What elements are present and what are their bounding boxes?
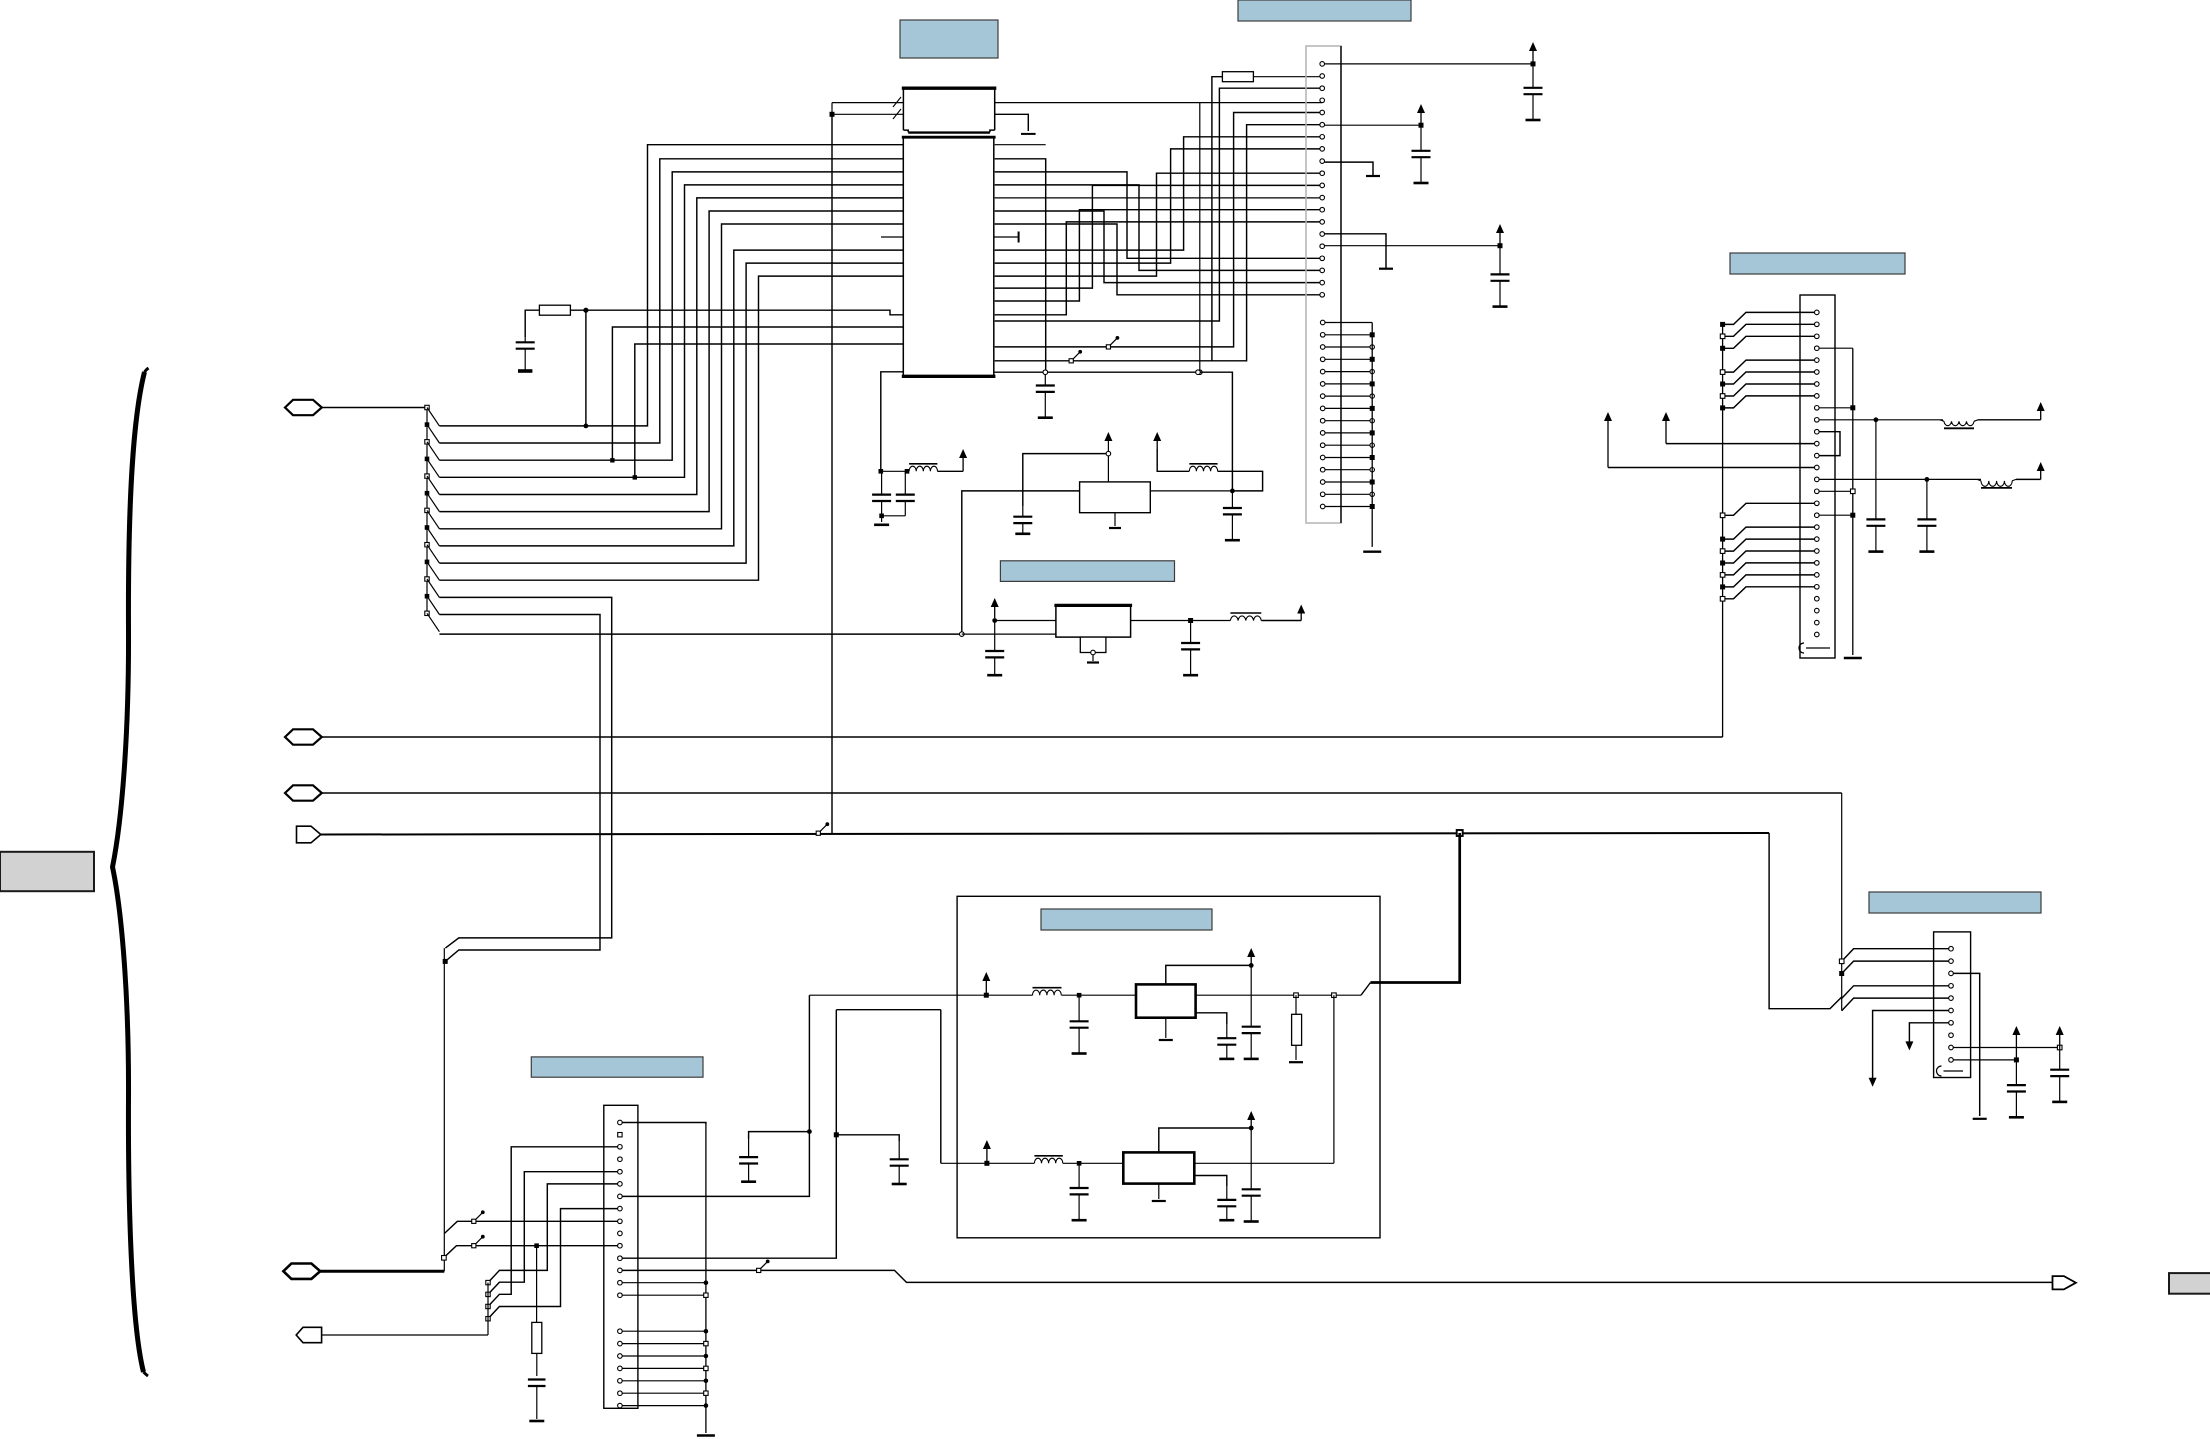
- inductor L5: [1977, 479, 1981, 481]
- connector J3 pin 19: [618, 1366, 623, 1371]
- capacitor C16: [1250, 965, 1252, 1026]
- connector J1 pin 2: [1320, 74, 1325, 79]
- label blue box B2: [1238, 0, 1411, 21]
- wire braid net 11: [995, 185, 1322, 271]
- junction R2 node: [583, 308, 588, 313]
- bus J4: [1841, 961, 1843, 1010]
- wire braid net 13: [995, 224, 1322, 295]
- capacitor C20: [748, 1139, 750, 1157]
- power arrow U5: [1250, 1115, 1252, 1128]
- connector J2 pin 12: [1815, 441, 1820, 446]
- connector J2 pin 8: [1815, 394, 1820, 399]
- wire braid net 6: [995, 173, 1322, 276]
- inductor L7: [1034, 1155, 1062, 1157]
- wire-to-pin9 with jumper: [445, 1221, 618, 1233]
- junction U5 top: [1249, 1126, 1254, 1131]
- connector J2 pin 13: [1815, 453, 1820, 458]
- connector J1 pin 17: [1320, 256, 1325, 261]
- IC U1 top section bottom edge with notches: [903, 130, 908, 132]
- wire fan row 5 to IC pin: [439, 198, 903, 495]
- jumper on output wire: [757, 1268, 761, 1272]
- wire W1 into IC top (with bus slash): [832, 102, 903, 104]
- connector J2 pin 3: [1815, 334, 1820, 339]
- connector J1 gnd pin 21: [1320, 320, 1325, 325]
- connector J3 pin 2: [618, 1133, 622, 1137]
- wire fan row 8 to IC pin: [439, 250, 903, 546]
- wire J2 pin19 ripper: [1723, 527, 1815, 539]
- wire J4 pin9 power: [1953, 1047, 2059, 1049]
- jumper J3b: [472, 1244, 476, 1248]
- wire fan row 9 to IC pin: [439, 263, 903, 563]
- connector J1 pin 4: [1320, 98, 1325, 103]
- wire U3 output: [1130, 620, 1190, 622]
- wire fan row 11 drop to lower area: [439, 597, 611, 948]
- wire fan row 1 to IC pin: [439, 145, 903, 426]
- wire C6-C7 bottom join: [882, 515, 906, 517]
- connector J1 body: [1306, 46, 1341, 523]
- wire J4 pin2 ripper: [1842, 961, 1949, 973]
- junction rail1 right: [1332, 993, 1337, 998]
- wire L5 to arrow: [2016, 478, 2041, 480]
- wire U5 pin2 to C18: [1194, 1176, 1227, 1187]
- wire L1 to arrow: [937, 470, 963, 472]
- wire J3 pin17 to bus: [622, 1343, 706, 1345]
- connector J1 gnd pin 27: [1320, 394, 1325, 399]
- wire IC top pin to connector pin4 (net W1): [995, 102, 1322, 104]
- arrow down J4a: [1872, 1078, 1874, 1083]
- wire U4 out: [1196, 994, 1361, 996]
- label blue box B7: [1869, 892, 2041, 913]
- wire braid net 5: [995, 149, 1322, 263]
- capacitor C24: [2015, 1060, 2017, 1085]
- connector J1 pin 20: [1320, 293, 1325, 298]
- capacitor C19: [1250, 1128, 1252, 1189]
- connector J4 key: [1937, 1066, 1942, 1076]
- wire J3 pin20 to bus: [622, 1380, 706, 1382]
- fan ripper 2: [425, 422, 430, 427]
- label blue box B3: [1730, 253, 1905, 274]
- wire J2 pin4 to ground bus: [1819, 347, 1853, 349]
- wire inter-rail vertical: [1333, 995, 1335, 1163]
- connector J3 pin 21: [618, 1391, 623, 1396]
- connector J3 pin 22: [618, 1403, 623, 1408]
- wire braid net 12: [995, 211, 1322, 283]
- wire J3 pin3 loop to P6 bundle: [488, 1147, 618, 1307]
- connector J2 pin 26: [1815, 608, 1820, 613]
- resistor R4 vertical: [536, 1246, 538, 1323]
- connector J2 pin 20: [1815, 537, 1820, 542]
- connector J2 pin 2: [1815, 322, 1820, 327]
- connector J2 pin 27: [1815, 620, 1820, 625]
- junction at x1045: [1043, 370, 1048, 375]
- bus brace (left curly brace): [113, 372, 145, 1372]
- connector J1 pin 8: [1320, 147, 1325, 152]
- wire U2 right pin to node: [1150, 490, 1232, 492]
- fan ripper 4: [425, 457, 430, 462]
- port P6 (output to left): [296, 1327, 321, 1342]
- wire coil L2 box: [1218, 471, 1263, 491]
- bold wire P5: [320, 1270, 444, 1273]
- capacitor C9: [1231, 491, 1233, 508]
- jumper J3a: [472, 1219, 476, 1223]
- wire J2 pin24 ripper: [1723, 587, 1815, 599]
- title block grey box: [0, 852, 94, 891]
- power arrow L3 out: [1300, 609, 1302, 621]
- power arrow U3 input: [994, 602, 996, 618]
- wire-to-pin11 with jumper: [444, 1246, 618, 1258]
- fan ripper 10: [425, 560, 430, 565]
- wire J2 pin7 ripper: [1723, 384, 1815, 396]
- connector J4 pin 3: [1949, 971, 1954, 976]
- connector J3 pin 9: [618, 1219, 623, 1224]
- regulator U3 body (bold top): [1056, 605, 1131, 637]
- wire rail2 feed corner: [940, 1010, 942, 1164]
- wire fan row 2 to IC pin: [439, 159, 903, 443]
- connector J4 pin 9: [1949, 1045, 1954, 1050]
- connector J1 gnd pin 30: [1320, 431, 1325, 436]
- wire P6: [322, 1334, 488, 1336]
- connector J2 pin 14: [1815, 465, 1820, 470]
- wire U3 left pin2: [962, 633, 1056, 635]
- resistor R1 (series on cn2 net): [1222, 72, 1253, 82]
- inductor L3: [1230, 612, 1261, 614]
- connector J1 pin 6: [1320, 122, 1325, 127]
- junction fan rows: [443, 959, 448, 964]
- connector J4 body: [1934, 932, 1971, 1078]
- wire U5 bottom stub: [1158, 1184, 1160, 1199]
- inductor L6: [1033, 987, 1062, 989]
- capacitor C2 on subcircuit net: [1044, 375, 1046, 386]
- ground sub1: [881, 516, 883, 522]
- connector J1 gnd pin 33: [1320, 467, 1325, 472]
- wire J4 pin1 ripper: [1842, 949, 1949, 962]
- connector J3 pin 4: [618, 1157, 623, 1162]
- bus left of J2: [1722, 324, 1724, 737]
- power arrow U2: [1107, 436, 1109, 441]
- junction rail1 arrow: [984, 993, 989, 998]
- resistor R3 vertical: [1295, 995, 1297, 1014]
- ground bus right of J2: [1852, 348, 1854, 655]
- wire J3 pin14 to bus: [622, 1282, 706, 1284]
- wire R2 left to C1: [525, 310, 539, 337]
- connector J2 pin 17: [1815, 501, 1820, 506]
- port P4 (control signal): [297, 826, 321, 843]
- wire J2 pin3 ripper: [1723, 336, 1815, 348]
- wire J2 pin18 to ground bus: [1819, 514, 1853, 516]
- inductor L1: [909, 463, 937, 465]
- power arrow rail2: [986, 1144, 988, 1161]
- connector J1 gnd pin 32: [1320, 455, 1325, 460]
- fan ripper 6: [425, 491, 430, 496]
- power arrow VDD3: [1499, 228, 1501, 246]
- wire rail1 feed from below-left: [808, 995, 810, 1131]
- fan ripper 8: [425, 525, 430, 530]
- fan ripper 13: [425, 611, 429, 615]
- regulator U5 body (bold): [1123, 1152, 1194, 1183]
- output arrow right: [2053, 1276, 2076, 1289]
- connector J3 pin 20: [618, 1379, 623, 1384]
- fan ripper 5: [425, 474, 429, 478]
- wire L2 from arrow: [1157, 449, 1189, 471]
- wire J2 pin2 ripper: [1723, 324, 1815, 336]
- wire P4 descent and feed: [1769, 833, 1842, 1009]
- wire L3 to arrow: [1261, 620, 1301, 622]
- wire J3 pin15 to bus: [622, 1294, 706, 1296]
- connector J4 pin 5: [1949, 996, 1954, 1001]
- connector J2 pin 4: [1815, 346, 1820, 351]
- wire U2 top to power node: [1107, 456, 1109, 482]
- connector J1 gnd pin 28: [1320, 406, 1325, 411]
- connector J1 pin 13: [1320, 207, 1325, 212]
- connector J2 pin 24: [1815, 585, 1820, 590]
- wire braid net 4: [995, 137, 1322, 250]
- wire U5 top loop: [1159, 1128, 1251, 1152]
- wire fan row 12 drop to lower area: [439, 615, 600, 962]
- wire R1 to connector pin2: [1253, 76, 1322, 78]
- long output wire to right port: [622, 1270, 2052, 1282]
- wire cn15 termination: [1325, 234, 1387, 269]
- connector J1 pin 10: [1320, 171, 1325, 176]
- vertical x444 chain: [443, 948, 445, 1271]
- wire vertical channel x1200: [1199, 103, 1201, 373]
- capacitor C15: [1226, 1024, 1228, 1038]
- wire x1046 riser to IC pin 158.8: [995, 159, 1046, 370]
- power arrow J2a: [2040, 406, 2042, 420]
- wire J2 pin11-13 bracket: [1819, 432, 1840, 456]
- connector J3 pin 6: [618, 1182, 623, 1187]
- wire J2 pin17 ripper: [1723, 503, 1815, 515]
- connector J1 pin 15: [1320, 232, 1325, 237]
- junction U4 top: [1249, 963, 1254, 968]
- ground symbol J2: [1844, 657, 1862, 659]
- connector J2 pin 18: [1815, 513, 1820, 518]
- IC U1 top section: [903, 88, 994, 130]
- big box boundary: [957, 896, 1380, 1238]
- connector J2 pin 25: [1815, 596, 1820, 601]
- wire J2 pin20 ripper: [1723, 539, 1815, 551]
- junction R3: [1294, 993, 1299, 998]
- wire P6 riser: [487, 1283, 489, 1335]
- wire fan riser B to IC pin 344: [635, 344, 903, 477]
- ground bus J3: [705, 1123, 707, 1434]
- connector J1 pin 19: [1320, 280, 1325, 285]
- bold wire horizontal into box: [1371, 981, 1462, 984]
- wire J4 pin4 ripper: [1842, 986, 1949, 999]
- wire J4 pin6 down arrow: [1873, 1011, 1949, 1079]
- capacitor C23: [2059, 1048, 2061, 1070]
- connector J3 pin 8: [618, 1206, 623, 1211]
- regulator U2 body: [1080, 482, 1151, 513]
- jumper on net cn5: [1106, 345, 1110, 349]
- wire U4 bottom stub: [1165, 1018, 1167, 1038]
- fan ripper 9: [425, 543, 429, 547]
- wire J3 pin1 to bus: [622, 1123, 706, 1125]
- label blue box B6: [531, 1057, 703, 1077]
- junction C17: [1077, 1161, 1082, 1166]
- wire IC bottom pin row (sub-circuit net): [994, 372, 1233, 491]
- connector J1 pin 11: [1320, 183, 1325, 188]
- connector J1 gnd pin 29: [1320, 418, 1325, 423]
- junction C14: [1077, 993, 1082, 998]
- capacitor C21: [898, 1141, 900, 1159]
- wire J2 pin6 ripper: [1723, 372, 1815, 384]
- wire braid net 3: [995, 125, 1322, 361]
- wire cn16 power tap: [1325, 245, 1501, 247]
- capacitor C13: [1926, 479, 1928, 519]
- connector J3 pin 1: [618, 1120, 623, 1125]
- wire J2 pin12 to arrow: [1666, 443, 1815, 445]
- wire J2 pin14 to arrow: [1608, 467, 1815, 469]
- wire P3 descent: [1841, 793, 1843, 961]
- fan ripper 12: [425, 594, 430, 599]
- wire braid net 9: [995, 222, 1322, 315]
- capacitor C17: [1078, 1163, 1080, 1188]
- power arrow rail1: [985, 976, 987, 993]
- wire J4 pin7 down arrow: [1909, 1023, 1948, 1042]
- connector J3 body: [604, 1105, 638, 1408]
- power arrow VDD1: [1532, 46, 1534, 64]
- wire vertical feed x832 down to P4 net: [831, 114, 833, 833]
- connector J1 gnd pin 25: [1320, 369, 1325, 374]
- wire J4 pin5 ripper: [1842, 998, 1949, 1011]
- wire straight net cn12: [995, 197, 1322, 199]
- connector J1 gnd pin 34: [1320, 480, 1325, 485]
- connector J3 pin 10: [618, 1231, 623, 1236]
- fan ripper 3: [425, 440, 429, 444]
- connector J3 pin 14: [618, 1280, 623, 1285]
- connector J3 pin 5: [618, 1169, 623, 1174]
- wire cn9 termination: [1325, 162, 1374, 176]
- label blue box B1: [900, 20, 998, 58]
- wire IC pin 144 stub: [995, 144, 1046, 146]
- wire U4 pin2 to C15: [1196, 1013, 1227, 1024]
- inductor L2: [1189, 463, 1217, 465]
- capacitor C8: [1022, 506, 1024, 517]
- label blue box B4: [1000, 561, 1174, 582]
- wire L6 to U4: [1062, 994, 1137, 996]
- connector J4 pin 1: [1949, 946, 1954, 951]
- port P3: [285, 785, 322, 800]
- wire W2 into IC top: [832, 113, 903, 115]
- connector J2 pin 10: [1815, 418, 1820, 423]
- connector J1 pin 1: [1320, 62, 1325, 67]
- wire U3 tab ground: [1091, 650, 1096, 655]
- wire fan row 4 to IC pin: [439, 185, 903, 477]
- connector J1 gnd pin 22: [1320, 333, 1325, 338]
- connector J2 pin 11: [1815, 429, 1820, 434]
- wire braid net 7: [995, 185, 1322, 288]
- connector J1 gnd pin 36: [1320, 504, 1325, 509]
- capacitor C4: [1420, 125, 1422, 151]
- connector J2 pin 9: [1815, 406, 1820, 411]
- bold wire vertical feed: [1458, 833, 1461, 983]
- connector J3 pin 3: [618, 1145, 623, 1150]
- junction U3 out: [1188, 618, 1193, 623]
- ground symbol J1 bus: [1363, 551, 1381, 553]
- wire L7 to U5: [1063, 1162, 1124, 1164]
- connector J2 pin 19: [1815, 525, 1820, 530]
- connector J2 pin 5: [1815, 358, 1820, 363]
- junction feed1: [807, 1129, 812, 1134]
- wire fan row 13 to regulator U3: [439, 633, 961, 635]
- wire J2 pin5 ripper: [1723, 360, 1815, 372]
- IC right NC stub with bar: [994, 236, 1019, 238]
- capacitor C18: [1226, 1186, 1228, 1200]
- connector J2 pin 15: [1815, 477, 1820, 482]
- wire net P3 long horizontal: [322, 792, 1842, 794]
- wire braid net 2: [995, 113, 1322, 347]
- connector J3 pin 18: [618, 1354, 623, 1359]
- ground symbol J3: [697, 1434, 715, 1436]
- IC U1 main body: [903, 137, 994, 376]
- wire R2 branch down to fan row1: [585, 310, 587, 426]
- port P1 (address bus input): [285, 400, 322, 415]
- wire fan row 6 to IC pin: [439, 211, 903, 512]
- junction W2 vertical feed: [830, 112, 835, 117]
- wire J3 pin6 loop to P6 bundle: [488, 1184, 618, 1283]
- wire J2 pin15 output with inductor: [1819, 478, 1927, 480]
- regulator U4 body (bold): [1136, 984, 1196, 1017]
- junction right node: [1230, 489, 1235, 494]
- power arrow J4c: [2059, 1030, 2061, 1048]
- wire J4 pin10 power: [1953, 1059, 2016, 1061]
- connector J1 pin 14: [1320, 220, 1325, 225]
- inductor L4: [1940, 420, 1944, 422]
- wire L4 to arrow: [1978, 419, 2041, 421]
- rail lower y1163: [941, 1162, 1035, 1164]
- wire fan riser A to IC pin 327: [612, 327, 903, 460]
- capacitor C5: [1499, 246, 1501, 275]
- connector J1 pin 5: [1320, 110, 1325, 115]
- wire P1 to fan bus: [322, 407, 427, 409]
- connector J1 pin 12: [1320, 195, 1325, 200]
- junction R4 tap: [534, 1243, 539, 1248]
- capacitor C11: [1190, 621, 1192, 644]
- wire J2 pin9 to ground bus: [1819, 407, 1853, 409]
- jumper on net cn6: [1069, 359, 1073, 363]
- wire U3 left pin1: [995, 620, 1056, 622]
- capacitor C12: [1875, 420, 1877, 520]
- capacitor C1 (R2 decoupling): [524, 337, 526, 342]
- wire J3 pin21 to bus: [622, 1392, 706, 1394]
- wire J2 pin23 ripper: [1723, 575, 1815, 587]
- wire J3 pin16 to bus: [622, 1330, 706, 1332]
- capacitor C14: [1078, 995, 1080, 1021]
- capacitor C10: [994, 621, 996, 652]
- wire cn6b power tap: [1325, 124, 1422, 126]
- wire U5 out: [1194, 1162, 1334, 1164]
- wire U4 top loop: [1166, 965, 1251, 984]
- resistor R2 top-left: [539, 305, 570, 315]
- connector J3 pin 13: [618, 1268, 623, 1273]
- wire left boundary of power subcircuit: [881, 372, 904, 472]
- wire J2 pin8 ripper: [1723, 396, 1815, 408]
- wire J2 pin10 output with inductor: [1819, 419, 1876, 421]
- wire U2 bottom stub: [1114, 513, 1116, 526]
- connector J4 pin 2: [1949, 959, 1954, 964]
- power arrow J2c: [1607, 416, 1609, 468]
- wire U2 left pin: [962, 491, 1080, 632]
- wire J3 pin22 to bus: [622, 1405, 706, 1407]
- U3 bottom tab: [1080, 637, 1106, 652]
- connector J1 gnd pin 24: [1320, 357, 1325, 362]
- wire W1 jog: [831, 103, 833, 115]
- connector J3 pin 15: [618, 1293, 623, 1298]
- wire fan row 10 to IC pin: [439, 276, 903, 580]
- connector J4 pin 4: [1949, 984, 1954, 989]
- wire J3 pin19 to bus: [622, 1367, 706, 1369]
- connector J2 key symbol: [1799, 643, 1804, 653]
